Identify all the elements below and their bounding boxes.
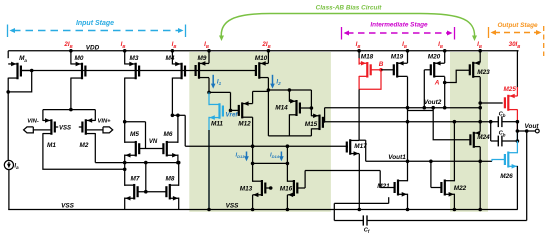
node Vout2 jog dot	[431, 106, 435, 110]
node comp bus tap dot	[478, 120, 482, 124]
svg-text:I1: I1	[217, 80, 222, 87]
transistor M19	[396, 62, 398, 78]
class-AB arrow curve	[221, 14, 474, 39]
wire M18 drain to M17	[358, 89, 360, 140]
wire lower left link	[334, 202, 388, 204]
transistor M23	[472, 62, 474, 78]
transistor M3	[135, 63, 137, 80]
svg-text:M16: M16	[280, 186, 293, 193]
transistor M9	[198, 62, 200, 79]
VSS rail	[8, 209, 518, 211]
wire folded bus	[95, 162, 178, 164]
svg-text:Cb: Cb	[499, 111, 506, 118]
transistor M25 (red)	[507, 95, 509, 111]
node M19 source dot	[406, 49, 410, 53]
output stage bracket	[488, 27, 490, 38]
svg-text:M1: M1	[47, 142, 56, 149]
node Cb1 right dot	[516, 120, 520, 124]
node cap link dot	[489, 120, 493, 124]
wire M0 drain to tail	[70, 78, 72, 110]
svg-text:M25: M25	[503, 86, 516, 93]
svg-text:M4: M4	[166, 55, 175, 62]
wire M12 source jog	[253, 90, 269, 92]
node M7 gate dot	[144, 190, 148, 194]
svg-text:Class-AB Bias Circuit: Class-AB Bias Circuit	[316, 5, 383, 12]
svg-text:ID14: ID14	[270, 152, 280, 159]
wire I1 node to Vref riser	[209, 91, 231, 93]
node M1 drain to M7 column dot	[123, 168, 127, 172]
wire M12 drain column	[252, 117, 254, 182]
node Vout dot	[516, 129, 520, 133]
svg-text:Cf: Cf	[364, 228, 370, 235]
current arrow I2	[272, 75, 274, 86]
wire M7/M8 gate riser	[145, 163, 147, 192]
node M3 drain dot	[123, 120, 127, 124]
wire left column to current source	[7, 92, 9, 161]
svg-text:M0: M0	[75, 55, 84, 62]
node Cb2 right dot	[516, 139, 520, 143]
wire Ma gate to bus	[21, 70, 31, 72]
svg-text:M18: M18	[361, 54, 374, 61]
wire first stage output riser	[184, 115, 186, 146]
svg-text:Input Stage: Input Stage	[76, 20, 114, 27]
wire M16 gate lead	[297, 187, 305, 189]
wire Vout to terminal	[517, 130, 535, 132]
wire M7 drain riser	[124, 163, 126, 186]
wire Vout column	[516, 131, 518, 153]
class-AB bias circuit shaded region	[189, 52, 331, 212]
svg-text:M23: M23	[477, 69, 490, 76]
wire M10 source riser	[267, 51, 269, 64]
svg-text:M10: M10	[255, 55, 268, 62]
wire tail bar	[43, 109, 95, 111]
svg-text:Ia: Ia	[14, 164, 19, 171]
wire VDD rail right end corner	[517, 50, 518, 52]
wire I2 node to M15	[268, 89, 311, 91]
wire M2 gate stub	[79, 126, 83, 128]
node M6 drain dot	[176, 114, 180, 118]
transistor M0	[81, 63, 83, 80]
wire compensation bus	[325, 121, 499, 123]
transistor M22	[444, 180, 446, 196]
node M16 drain mid dot	[286, 162, 290, 166]
wire M8 source to VSS	[178, 198, 180, 210]
wire M3 drain down	[124, 78, 126, 122]
wire M19/M21 column	[407, 77, 409, 182]
transistor M24	[473, 132, 475, 148]
wire node A to M23 gate	[445, 70, 470, 82]
wire VN riser	[145, 122, 147, 149]
wire Vout2 bus	[325, 107, 481, 109]
wire M21 gate lead	[380, 187, 394, 189]
wire Vout1 bus	[366, 160, 481, 162]
wire M16 drain riser	[286, 146, 288, 182]
transistor M8	[169, 184, 171, 200]
wire M23 drain column	[479, 77, 481, 132]
node M6 source dot	[176, 161, 180, 165]
transistor M2	[85, 119, 87, 135]
wire M14 source riser	[288, 90, 290, 102]
svg-text:Vref: Vref	[226, 112, 239, 119]
transistor M14	[295, 100, 297, 116]
wire M9 drain riser	[208, 78, 210, 93]
node Vout2 end dot	[443, 106, 447, 110]
svg-text:M24: M24	[477, 134, 490, 141]
svg-text:M11: M11	[211, 121, 223, 128]
svg-text:Intermediate Stage: Intermediate Stage	[370, 22, 428, 29]
node Vout1 end dot	[478, 160, 482, 164]
wire Cf right	[367, 220, 527, 222]
node I2 dot	[267, 88, 271, 92]
node B dot	[379, 68, 383, 72]
capacitor Cf	[362, 215, 364, 225]
node M21 source dot	[406, 208, 410, 212]
wire M21 source to VSS	[407, 194, 409, 210]
svg-text:Vout1: Vout1	[388, 154, 406, 161]
svg-text:M3: M3	[130, 55, 139, 62]
node M18 source dot	[357, 49, 361, 53]
svg-text:Vout: Vout	[525, 123, 540, 130]
wire M15 source riser	[310, 90, 312, 116]
svg-text:VSS: VSS	[61, 203, 75, 210]
wire M10 drain riser	[267, 78, 269, 90]
svg-text:Output Stage: Output Stage	[497, 22, 538, 29]
intermediate stage bracket	[341, 27, 343, 40]
wire M17 gate lead	[347, 146, 348, 148]
wire M18 source riser	[358, 51, 360, 59]
wire M20 drain riser	[444, 77, 446, 83]
wire M0 source	[70, 51, 72, 65]
node M8 drain dot	[177, 161, 181, 165]
VIN- port	[24, 127, 34, 133]
svg-text:M5: M5	[130, 131, 139, 138]
transistor M20	[433, 62, 435, 78]
node Vref dot	[229, 109, 233, 113]
svg-text:VDD: VDD	[86, 45, 100, 52]
input stage bracket	[7, 25, 9, 38]
node M5 source dot	[123, 161, 127, 165]
transistor M1	[50, 119, 52, 135]
wire class-AB mid link	[253, 162, 288, 164]
wire cap link riser	[490, 122, 492, 141]
node M25 gate tap dot	[478, 101, 482, 105]
node M0 source dot	[69, 49, 73, 53]
node M20 source dot	[443, 49, 447, 53]
svg-text:M2: M2	[80, 142, 89, 149]
node M16 drain bus dot	[286, 144, 290, 148]
svg-text:M12: M12	[238, 121, 251, 128]
wire Cf riser left	[333, 203, 335, 220]
wire M11 source down	[208, 117, 210, 210]
node M4 drain dot	[171, 114, 175, 118]
wire M19 source riser	[407, 51, 409, 63]
wire Vref riser	[230, 92, 232, 110]
svg-text:M26: M26	[500, 173, 513, 180]
wire M22 source to VSS	[453, 194, 455, 210]
svg-text:M6: M6	[164, 131, 173, 138]
wire M16 gate riser	[304, 171, 306, 189]
wire M14 gate lead	[300, 107, 312, 109]
wire M4 drain jog	[172, 114, 185, 116]
svg-text:M15: M15	[305, 121, 318, 128]
svg-text:M20: M20	[428, 54, 441, 61]
svg-text:M7: M7	[131, 176, 140, 183]
output stage shaded region	[450, 52, 488, 212]
wire M2 drain down	[94, 133, 96, 163]
wire M25 source riser	[516, 51, 518, 88]
current arrow ID13	[246, 152, 248, 159]
wire M20 gate lead	[424, 69, 431, 71]
transistor Ma	[16, 63, 18, 80]
wire M17 drain ext	[359, 139, 365, 141]
wire M23 source riser	[479, 51, 481, 63]
node M16 source dot	[286, 208, 290, 212]
wire M14 drain riser	[288, 114, 290, 136]
wire M20 source riser	[444, 51, 446, 63]
wire M25 drain riser	[516, 109, 518, 131]
wire M22 gate riser	[430, 161, 432, 187]
node M22 drain comp dot	[453, 120, 457, 124]
node A dot	[443, 81, 447, 85]
wire M6 source riser	[177, 155, 179, 163]
svg-text:B: B	[379, 61, 384, 68]
wire M17 source to VSS	[358, 154, 360, 210]
node Cf vout dot	[525, 129, 529, 133]
current source Ia	[4, 160, 13, 169]
wire M6 drain riser	[177, 115, 179, 143]
node Ma drain dot	[6, 90, 10, 94]
wire tail to M2 source	[94, 110, 96, 121]
node M22 gate dot	[429, 160, 433, 164]
wire Vout2 to M24 gate	[433, 108, 470, 140]
transistor M11 (cyan)	[218, 103, 220, 119]
wire tail to M1 source	[42, 110, 44, 121]
svg-text:Cb: Cb	[499, 131, 506, 138]
wire M4 source	[171, 51, 173, 65]
node M22 source dot	[453, 208, 457, 212]
VIN+ port	[103, 127, 113, 133]
wire M21 gate riser	[379, 171, 381, 188]
svg-text:M13: M13	[240, 186, 253, 193]
wire I2 column lower	[267, 90, 269, 136]
wire M25 gate wire	[480, 102, 503, 104]
node column Vout1 dot	[406, 160, 410, 164]
transistor M10	[258, 62, 260, 79]
wire Ma diode connection	[8, 71, 32, 92]
wire VIN- to M1 bulk	[33, 129, 50, 131]
node M23 source dot	[478, 49, 482, 53]
wire M9 source riser	[208, 51, 210, 64]
svg-text:M22: M22	[454, 185, 467, 192]
svg-text:M21: M21	[377, 183, 390, 190]
wire PMOS gate bus	[21, 70, 256, 72]
node M24 column VSS dot	[478, 208, 482, 212]
wire M22 gate lead	[431, 187, 442, 189]
node M14 source dot	[288, 88, 292, 92]
wire M11 drain riser	[208, 92, 210, 105]
wire M12 gate	[231, 109, 240, 111]
node M7 gate riser dot	[144, 161, 148, 165]
wire M12 source riser	[252, 91, 254, 103]
wire class-AB lower link	[268, 135, 311, 137]
svg-text:A: A	[434, 80, 440, 87]
node M10 source dot	[267, 49, 271, 53]
node M4 source dot	[171, 49, 175, 53]
wire M5 source riser	[124, 155, 126, 163]
svg-text:VSS: VSS	[226, 203, 240, 210]
wire M21 gate bus	[305, 170, 380, 172]
wire M8 drain riser	[178, 163, 180, 186]
node M20 gate on Vout2 dot	[423, 106, 427, 110]
wire Cf to Vout riser	[526, 131, 528, 221]
wire M5 drain riser	[124, 122, 126, 143]
wire A column to Vout2	[444, 83, 446, 108]
wire M1 drain down	[43, 133, 125, 169]
wire M13 source to VSS	[252, 195, 254, 210]
capacitor Cb1	[497, 116, 499, 127]
node M13 source dot	[251, 208, 255, 212]
transistor M16	[293, 180, 295, 196]
svg-text:I2: I2	[276, 80, 281, 87]
capacitor Cb2	[491, 140, 499, 142]
node M19 drain on Vout2 dot	[406, 106, 410, 110]
node M9 source dot	[207, 49, 211, 53]
transistor M6	[166, 141, 168, 157]
wire M7 source to VSS	[124, 198, 126, 210]
wire M15 gate riser	[324, 108, 326, 123]
wire Ma source from VDD	[7, 51, 9, 58]
wire second stage input bus	[185, 145, 348, 147]
svg-text:M14: M14	[275, 105, 288, 112]
node M11 source to VSS dot	[207, 208, 211, 212]
current arrow ID14	[280, 152, 282, 159]
wire Ma drain down	[7, 78, 9, 92]
node column comp bus dot	[406, 120, 410, 124]
wire node B to M19 gate	[381, 69, 394, 71]
svg-text:M8: M8	[166, 176, 175, 183]
wire M7 M8 gate link	[138, 191, 167, 193]
wire M18 gate to node B	[371, 69, 381, 71]
current arrow I1	[212, 75, 214, 86]
Vout terminal circle	[535, 129, 539, 133]
node M14 gate dot	[310, 106, 314, 110]
svg-text:M9: M9	[198, 55, 207, 62]
transistor M5	[135, 141, 137, 157]
transistor M15	[318, 115, 320, 131]
node Ma gate-drain dot	[30, 69, 34, 73]
wire Vout1 riser	[365, 140, 367, 161]
node M12 column mid dot	[251, 162, 255, 166]
wire M18 drain	[358, 76, 360, 89]
transistor M13	[261, 180, 263, 196]
svg-text:ID13: ID13	[236, 152, 246, 159]
wire M20 gate riser	[423, 70, 425, 108]
wire VN gate bar link	[139, 148, 163, 150]
transistor M7	[133, 184, 135, 200]
node M17 source dot	[358, 208, 362, 212]
svg-text:VSS: VSS	[59, 125, 71, 131]
svg-text:VN: VN	[149, 139, 158, 145]
wire M15 drain riser	[310, 128, 312, 136]
wire M18 diode loop	[359, 70, 381, 90]
wire M26 gate lead	[480, 160, 492, 162]
wire M26 source to VSS	[516, 166, 518, 210]
wire M1 gate stub	[55, 126, 58, 128]
transistor M12	[241, 102, 243, 118]
node Vout2 column dot	[478, 106, 482, 110]
svg-text:M19: M19	[391, 54, 404, 61]
transistor M18 (red)	[366, 62, 368, 78]
wire Cf left	[334, 220, 363, 222]
svg-text:VIN+: VIN+	[97, 119, 111, 125]
svg-text:VIN-: VIN-	[27, 119, 39, 125]
node M3 source dot	[123, 49, 127, 53]
wire M13 gate stub	[265, 187, 270, 189]
transistor M4	[181, 63, 183, 80]
wire M3 source	[124, 51, 126, 65]
wire M22 drain riser	[453, 122, 455, 182]
wire M4 drain down	[171, 78, 173, 116]
wire M3 drain to VN riser	[125, 121, 146, 123]
node M12 column bus dot	[251, 144, 255, 148]
wire Vout2 short link	[408, 110, 434, 112]
node tail dot	[69, 108, 73, 112]
transistor M17	[349, 139, 351, 155]
transistor M21	[397, 180, 399, 196]
node I1 dot	[207, 91, 211, 95]
wire M24 drain column	[479, 147, 481, 210]
wire current source to VSS	[8, 170, 10, 210]
VDD rail	[8, 50, 518, 52]
svg-text:Vout2: Vout2	[424, 99, 442, 106]
transistor M26 (cyan)	[507, 152, 509, 168]
wire VIN+ to M2 bulk	[87, 129, 103, 131]
wire M16 source to VSS	[286, 195, 288, 210]
